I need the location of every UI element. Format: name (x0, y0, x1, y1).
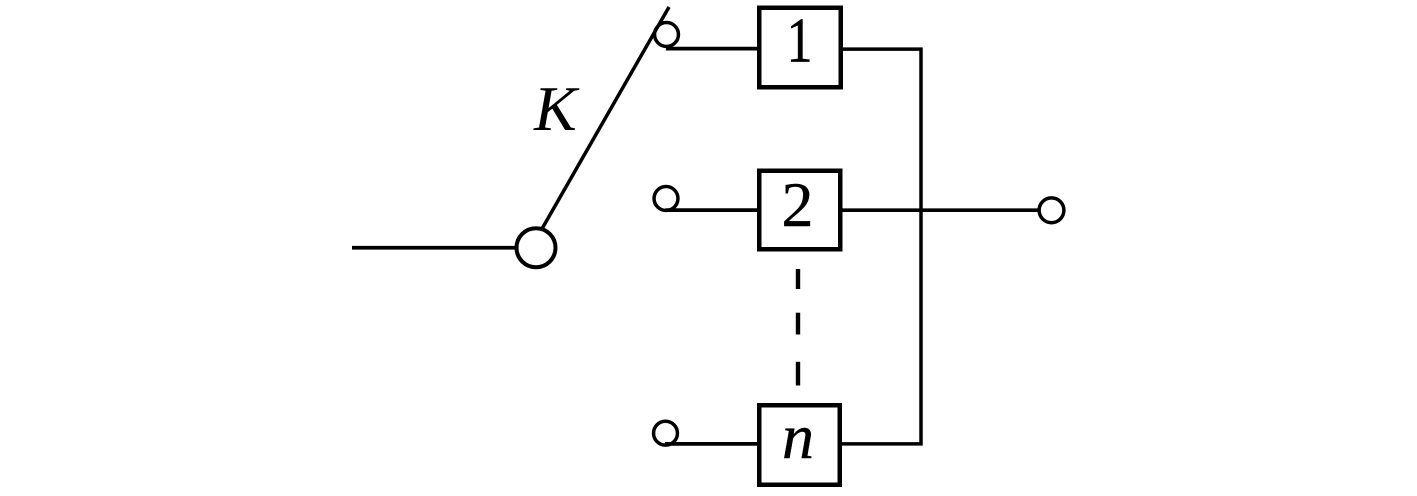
block box 1 (759, 8, 841, 88)
svg-text:n: n (782, 401, 814, 472)
switch K blade (diagonal arm) (542, 7, 669, 229)
throw contact terminal n (654, 421, 678, 445)
svg-text:1: 1 (787, 4, 813, 76)
throw contact terminal 1 (655, 23, 679, 47)
wire: contact 2 to box 2 (666, 208, 760, 212)
wire: contact 1 to box 1 (666, 47, 759, 51)
switch K pole circle (517, 228, 556, 267)
block box n (759, 405, 840, 485)
svg-text:K: K (533, 73, 580, 144)
wire: box 1 to output bus and bus down to box n (841, 49, 921, 444)
throw contact terminal 2 (654, 187, 678, 211)
wire: input lead to switch pole (352, 246, 516, 250)
wire: contact n to box n (665, 442, 759, 446)
dash segment 2 (ellipsis between box 2 and box n) (796, 313, 800, 335)
block box 2 (759, 171, 840, 250)
svg-text:2: 2 (782, 169, 814, 240)
wire: box 2 to output terminal (841, 208, 1039, 212)
dash segment 1 (ellipsis between box 2 and box n) (796, 269, 800, 289)
output terminal circle (1039, 198, 1064, 223)
dash segment 3 (ellipsis between box 2 and box n) (796, 362, 800, 386)
